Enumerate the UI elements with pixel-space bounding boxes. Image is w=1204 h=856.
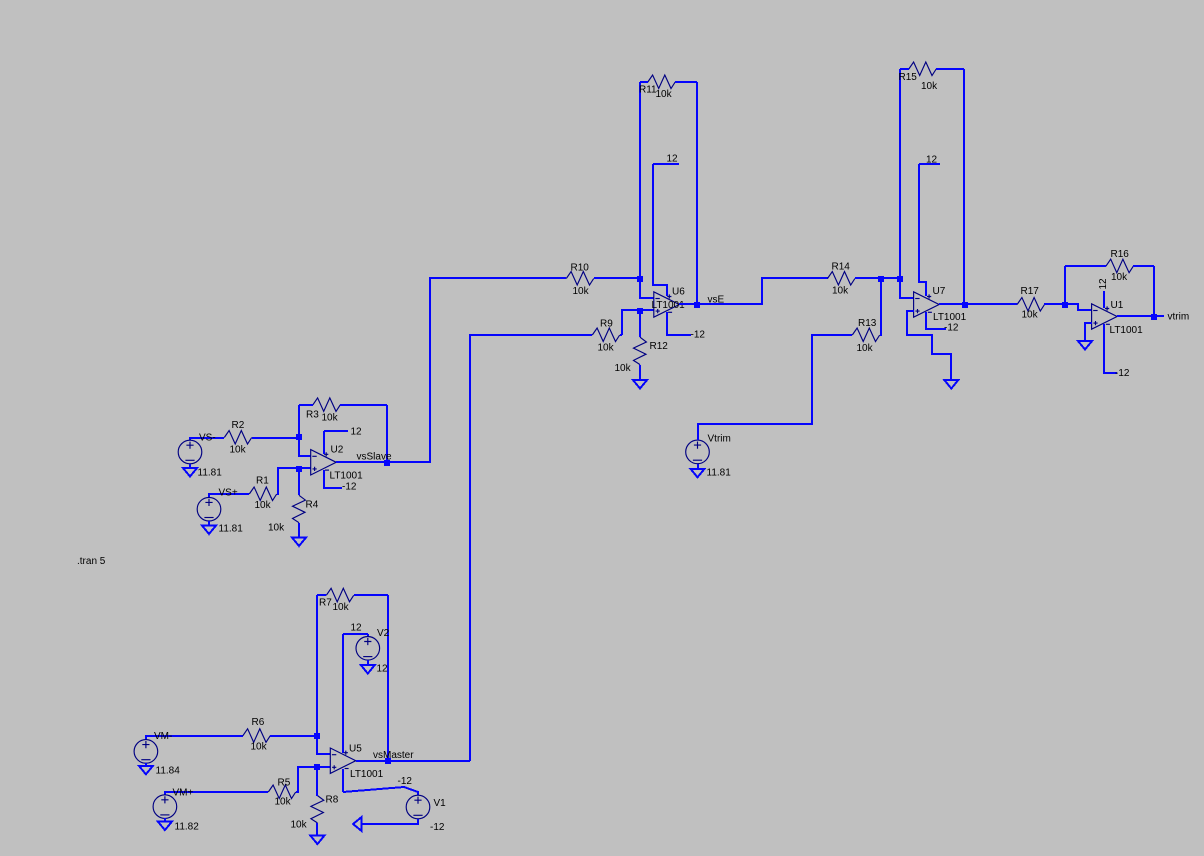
wire VS- to R2: [190, 438, 224, 440]
resistor R1 body: [249, 487, 276, 501]
resistor R11 body: [648, 75, 675, 89]
wire node I to U5 +input: [317, 766, 330, 768]
ground U7: [944, 380, 958, 389]
node A junction R2/R3: [296, 434, 302, 440]
ground V2: [361, 665, 375, 674]
svg-text:V1: V1: [434, 798, 447, 809]
node I junction R5/R8: [314, 764, 320, 770]
wire U6 output: [679, 303, 697, 305]
wire VS+ to R1: [209, 494, 249, 497]
svg-text:VS-: VS-: [199, 433, 216, 444]
wire U1 V+ pin: [1103, 291, 1105, 308]
wire VM+ to R5: [165, 792, 268, 795]
resistor R16 body: [1106, 259, 1133, 273]
wire VS- to ground: [189, 464, 191, 468]
wire R15 left lead: [900, 68, 909, 70]
wire R16 right vertical: [1153, 266, 1155, 316]
resistor R3 body: [313, 398, 340, 412]
wire R16 right lead: [1133, 265, 1154, 267]
resistor R2 body: [224, 431, 251, 445]
voltage source VM-: [134, 740, 158, 764]
node C junction R10/R11: [637, 276, 643, 282]
wire U1 V- pin: [1104, 324, 1117, 373]
svg-text:Vtrim: Vtrim: [708, 434, 731, 445]
wire R17 to node G: [1044, 303, 1065, 305]
svg-text:vsSlave: vsSlave: [357, 452, 392, 463]
svg-text:12: 12: [351, 427, 363, 438]
ground VM-: [139, 766, 153, 775]
wire R12 top lead: [639, 310, 641, 337]
svg-text:-12: -12: [342, 482, 357, 493]
voltage source Vtrim: [686, 440, 710, 464]
node G junction R17/R16: [1062, 302, 1068, 308]
svg-text:10k: 10k: [291, 820, 308, 831]
svg-text:10k: 10k: [275, 797, 292, 808]
resistor R9 body: [592, 328, 619, 342]
svg-text:10k: 10k: [230, 445, 247, 456]
svg-text:11.82: 11.82: [175, 822, 200, 833]
node B junction R1/R4: [296, 466, 302, 472]
svg-text:R13: R13: [858, 318, 877, 329]
op-amp U6 LT1001: [654, 292, 680, 317]
svg-text:10k: 10k: [251, 742, 268, 753]
wire R7 left vertical / U5 inverting input: [317, 595, 330, 754]
wire R3 top left lead: [299, 404, 313, 406]
ground VS-: [183, 468, 197, 477]
ground VS+: [202, 526, 216, 535]
node vtrim junction: [1151, 314, 1157, 320]
svg-text:R5: R5: [278, 778, 291, 789]
svg-text:VM+: VM+: [173, 788, 194, 799]
wire VS+ to ground: [208, 521, 210, 526]
svg-text:10k: 10k: [1111, 272, 1128, 283]
svg-text:10k: 10k: [656, 89, 673, 100]
wire R6 to node H: [270, 735, 317, 737]
svg-text:R3: R3: [306, 410, 319, 421]
resistor R13 body: [852, 328, 879, 342]
wire -12 diagonal to V1: [343, 787, 418, 795]
svg-text:-12: -12: [944, 323, 959, 334]
wire 12 supply stub U7: [919, 163, 940, 165]
wire U5 output: [356, 760, 470, 762]
wire U2 output: [336, 461, 387, 463]
svg-text:-12: -12: [691, 330, 706, 341]
svg-text:R4: R4: [306, 500, 319, 511]
wire R14 to node E: [855, 277, 881, 279]
node vsE junction: [694, 302, 700, 308]
wire R16 left vertical: [1064, 266, 1066, 304]
resistor R7 body: [326, 588, 353, 602]
svg-text:10k: 10k: [255, 500, 272, 511]
svg-text:10k: 10k: [322, 413, 339, 424]
svg-text:U5: U5: [349, 744, 362, 755]
wire U2 V+ pin: [323, 431, 325, 454]
wire R9 riser to node D: [622, 310, 640, 335]
ground R12: [633, 380, 647, 389]
svg-text:10k: 10k: [615, 363, 632, 374]
resistor R14 body: [828, 272, 855, 286]
wire R11 right lead: [675, 81, 697, 83]
wire R11 left vertical: [639, 82, 641, 278]
op-amp U7 LT1001: [914, 292, 940, 317]
wire 12 supply stub U6: [653, 163, 679, 165]
resistor R10 body: [566, 272, 593, 286]
ground R8: [310, 836, 324, 845]
svg-text:10k: 10k: [832, 286, 849, 297]
ground Vtrim: [691, 469, 705, 478]
resistor R17 body: [1017, 298, 1044, 312]
wire U7 V+ pin: [919, 164, 926, 296]
wire vsE to R14: [697, 278, 828, 304]
node vsMaster junction: [385, 758, 391, 764]
wire node B to U2 +input: [299, 467, 311, 469]
wire U5 V+ pin: [342, 634, 344, 753]
wire R4 bottom lead: [298, 523, 300, 538]
wire R13 to node E riser: [880, 278, 881, 335]
wire U6 V+ pin: [653, 164, 667, 296]
svg-text:R11: R11: [639, 85, 657, 96]
svg-text:10k: 10k: [573, 286, 590, 297]
svg-text:R8: R8: [326, 795, 339, 806]
svg-text:-12: -12: [1115, 368, 1130, 379]
svg-text:vsMaster: vsMaster: [373, 750, 414, 761]
svg-text:R12: R12: [650, 341, 669, 352]
op-amp U5 LT1001: [330, 748, 356, 773]
svg-text:R7: R7: [319, 598, 332, 609]
wire VM+ to ground: [164, 818, 166, 822]
resistor R6 body: [243, 729, 270, 743]
wire R3 left vertical / inverting input U2: [299, 405, 311, 456]
wire R12 bottom lead: [639, 365, 641, 380]
svg-text:V2: V2: [377, 628, 390, 639]
wire R15 left vertical / U7 inverting input: [900, 69, 914, 298]
voltage source V1: [406, 795, 430, 819]
wire vsSlave to R10 riser: [387, 278, 566, 462]
svg-text:R15: R15: [899, 72, 918, 83]
svg-text:10k: 10k: [333, 602, 350, 613]
svg-text:U1: U1: [1111, 300, 1124, 311]
svg-text:vtrim: vtrim: [1168, 312, 1190, 323]
node vsSlave junction: [384, 460, 390, 466]
wire 12 supply stub U2: [324, 430, 348, 432]
wire V2 to ground: [367, 660, 369, 665]
wire node A segment: [298, 438, 300, 455]
wire R8 bottom lead: [316, 823, 318, 836]
svg-text:R14: R14: [832, 262, 851, 273]
svg-text:LT1001: LT1001: [933, 312, 967, 323]
svg-text:10k: 10k: [857, 343, 874, 354]
wire U1 +input to ground: [1085, 323, 1092, 341]
svg-text:R2: R2: [232, 420, 245, 431]
svg-text:LT1001: LT1001: [652, 300, 686, 311]
voltage source V2: [356, 637, 380, 661]
svg-text:10k: 10k: [268, 523, 285, 534]
wire U2 V- pin: [324, 470, 342, 488]
op-amp U2 LT1001: [311, 450, 337, 475]
svg-text:12: 12: [926, 154, 938, 165]
wire R7 left lead: [317, 594, 326, 596]
svg-text:LT1001: LT1001: [350, 769, 384, 780]
wire node G to U1 inverting input: [1065, 304, 1092, 310]
svg-text:-12: -12: [430, 822, 445, 833]
svg-text:10k: 10k: [921, 81, 938, 92]
svg-text:U2: U2: [331, 445, 344, 456]
wire R4 top lead: [298, 468, 300, 495]
wire R10 to node C: [594, 277, 640, 279]
svg-text:11.81: 11.81: [198, 468, 223, 479]
ground VM+: [158, 822, 172, 831]
svg-text:U7: U7: [933, 286, 946, 297]
wire U6 V- pin: [667, 312, 691, 335]
wire R15 right vertical: [963, 69, 965, 304]
wire U7 +input to ground staircase: [907, 311, 951, 380]
wire R7 right vertical: [387, 595, 389, 761]
wire R5 to node I: [296, 767, 317, 792]
svg-text:R10: R10: [571, 263, 590, 274]
resistor R5 body: [268, 785, 295, 799]
svg-text:-12: -12: [398, 776, 413, 787]
wire U7 V- pin: [926, 312, 946, 329]
wire R9 right lead: [620, 334, 622, 336]
wire R3 right vertical to U2 output: [386, 405, 388, 462]
resistor R8 body: [311, 796, 324, 823]
svg-text:11.81: 11.81: [219, 524, 244, 535]
svg-text:R1: R1: [256, 476, 269, 487]
wire U1 output: [1117, 315, 1154, 317]
svg-text:R9: R9: [600, 319, 613, 330]
wire U7 output to R17: [964, 303, 1017, 305]
voltage source VS+: [197, 497, 221, 521]
svg-text:11.81: 11.81: [707, 468, 732, 479]
node U7 output junction: [962, 302, 968, 308]
svg-text:R17: R17: [1021, 286, 1040, 297]
wire node E to node F: [881, 277, 900, 279]
wire vtrim output: [1154, 315, 1164, 317]
wire V1 to left ground: [362, 819, 418, 824]
ground V1 (left-pointing): [353, 817, 362, 831]
wire node C to U6 inverting input: [640, 278, 654, 298]
node E junction R14/R13: [878, 276, 884, 282]
svg-text:10k: 10k: [1022, 310, 1039, 321]
wire U5 V- pin: [342, 769, 344, 792]
svg-text:VM-: VM-: [154, 731, 172, 742]
wire Vtrim to R13: [698, 335, 852, 440]
wire node D to U6 +input: [640, 309, 654, 311]
wire R15 right lead: [936, 68, 964, 70]
svg-text:R6: R6: [252, 717, 265, 728]
wire vsMaster riser to R9: [470, 335, 592, 761]
node H junction R6/R7: [314, 733, 320, 739]
ground R4: [292, 538, 306, 547]
svg-text:12: 12: [351, 623, 363, 634]
svg-text:R16: R16: [1111, 249, 1130, 260]
wire R11 left lead: [640, 81, 648, 83]
wire R3 top right lead: [340, 404, 387, 406]
voltage source VS-: [178, 440, 202, 464]
wire VM- to ground: [145, 763, 147, 766]
svg-text:12: 12: [377, 664, 389, 675]
op-amp U1 LT1001: [1092, 304, 1118, 329]
wire R7 right lead: [354, 594, 388, 596]
wire R2 to node A: [252, 437, 299, 439]
wire R16 left lead: [1065, 265, 1106, 267]
svg-text:LT1001: LT1001: [1110, 325, 1144, 336]
wire 12 supply stub U5: [343, 633, 368, 635]
resistor R4 body: [293, 495, 306, 522]
resistor R12 body: [634, 337, 647, 364]
wire Vtrim to ground: [697, 464, 699, 469]
svg-text:10k: 10k: [598, 343, 615, 354]
wire R11 right vertical: [696, 82, 698, 304]
node D junction R9/R12: [637, 308, 643, 314]
resistor R15 body: [909, 62, 936, 76]
ground U1: [1078, 341, 1092, 350]
voltage source VM+: [153, 795, 177, 819]
svg-text:U6: U6: [672, 287, 685, 298]
wire V2 top stub: [367, 634, 369, 636]
wire VM- to R6: [146, 736, 243, 740]
wire R1 to node B: [277, 468, 299, 494]
svg-text:LT1001: LT1001: [330, 471, 364, 482]
svg-text:11.84: 11.84: [156, 766, 181, 777]
svg-text:.tran 5: .tran 5: [77, 556, 106, 567]
svg-text:12: 12: [667, 154, 679, 165]
node F junction R14/R15: [897, 276, 903, 282]
wire U7 output: [939, 303, 964, 305]
svg-text:12: 12: [1098, 278, 1109, 290]
svg-text:VS+: VS+: [219, 488, 238, 499]
wire R8 top lead: [316, 767, 318, 796]
